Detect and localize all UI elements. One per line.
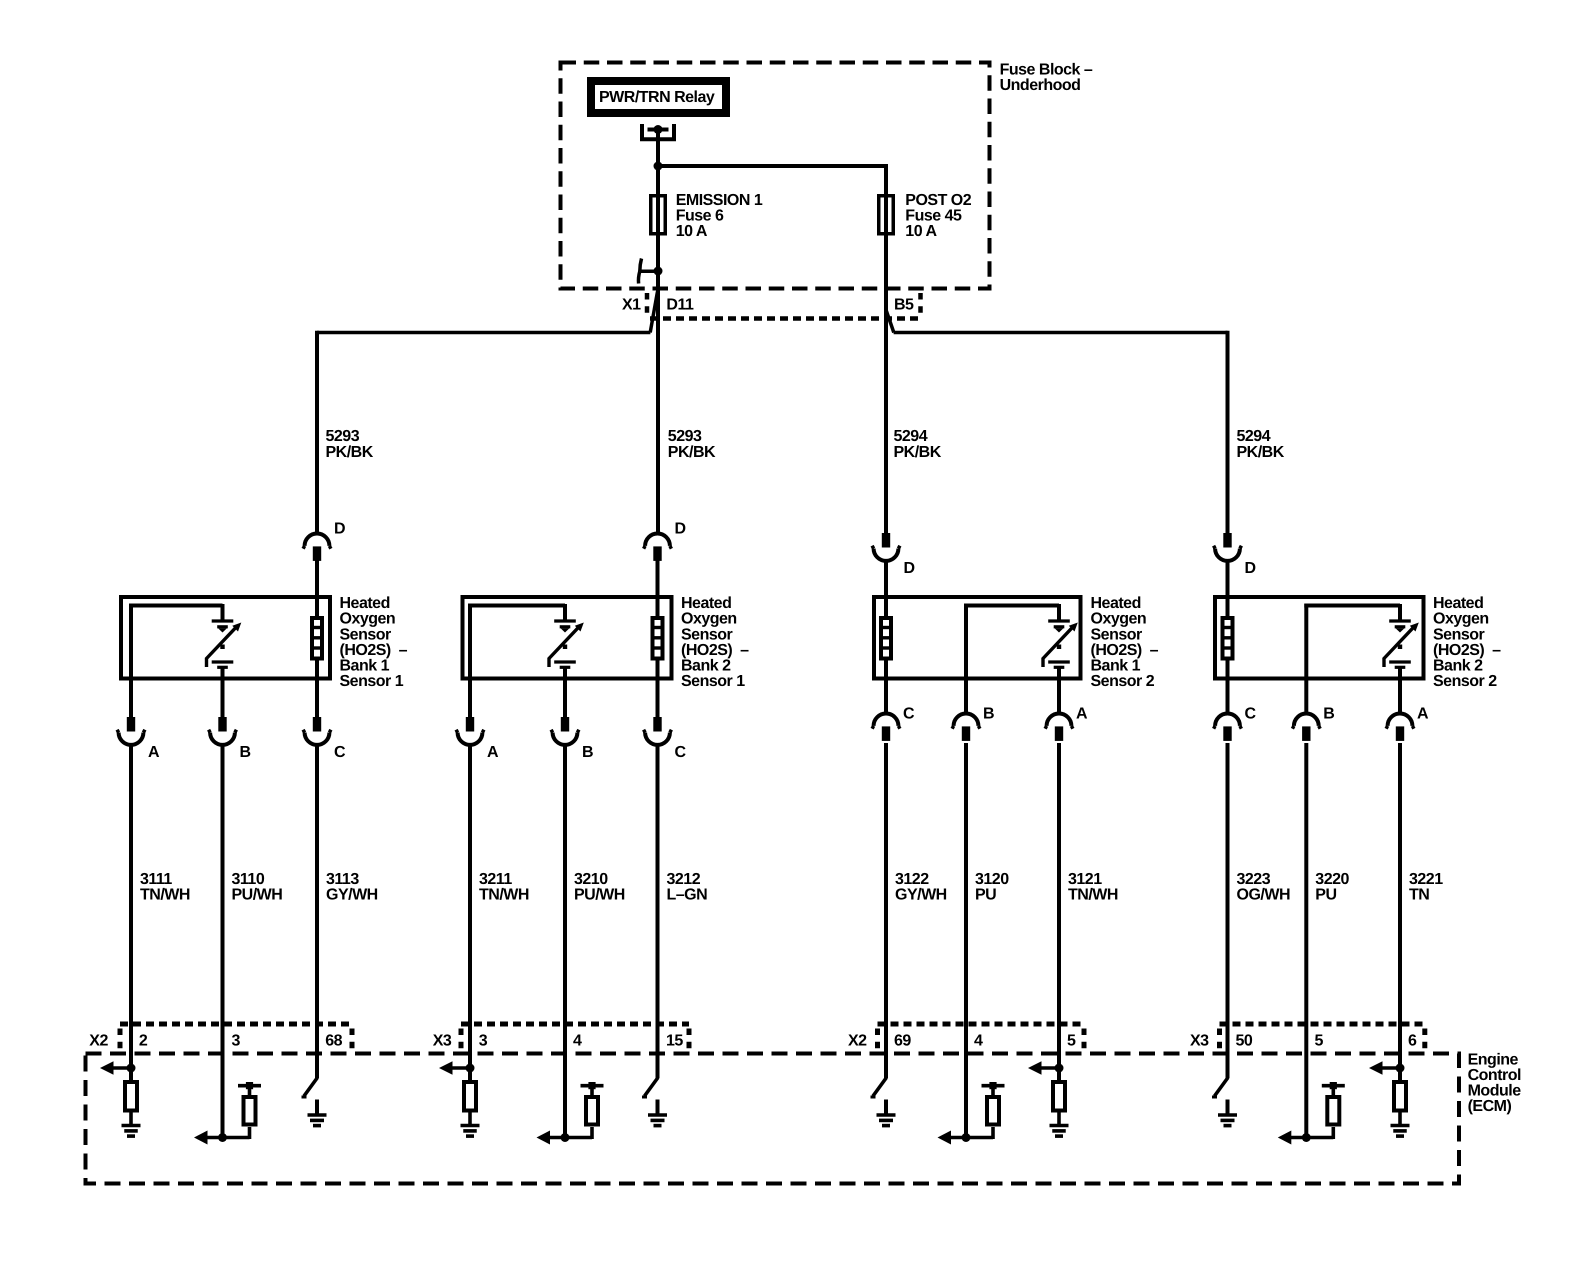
svg-text:3220: 3220 [1315,871,1349,888]
connector pin A (3111) [117,717,145,745]
svg-text:B: B [983,706,994,723]
ground stem pin 15 [656,1100,660,1116]
svg-text:POST O2: POST O2 [905,192,971,209]
wire 3110 PU/WH run [221,745,225,1140]
svg-text:Sensor 2: Sensor 2 [1091,673,1155,690]
svg-text:Oxygen: Oxygen [681,611,737,628]
connector pin B (3210) [551,717,579,745]
svg-text:50: 50 [1236,1033,1253,1050]
svg-text:X3: X3 [1190,1033,1209,1050]
wire 3113 GY/WH run [315,745,319,1079]
wire 3220 PU run [1304,743,1308,1140]
svg-text:3121: 3121 [1068,871,1102,888]
ground (internal) pin 50 [1218,1115,1237,1126]
svg-text:X2: X2 [848,1033,867,1050]
junction node pin 6 [1396,1064,1405,1073]
svg-text:10 A: 10 A [676,223,708,240]
svg-text:B: B [582,744,593,761]
svg-text:Sensor 2: Sensor 2 [1433,673,1497,690]
connector pin B (3220) [1292,714,1320,741]
wire box to pin C (3122) [884,678,888,715]
svg-text:D: D [675,521,686,538]
svg-text:OG/WH: OG/WH [1237,887,1291,904]
svg-text:(HO2S) –: (HO2S) – [681,642,749,659]
svg-text:3111: 3111 [140,871,172,888]
svg-text:A: A [1076,706,1088,723]
connector pin C (3212) [644,717,672,745]
svg-text:PU/WH: PU/WH [574,887,625,904]
svg-text:PK/BK: PK/BK [1237,444,1285,461]
HO2S Bank 2 Sensor 2 (box) [1215,597,1424,679]
svg-text:D: D [904,560,915,577]
svg-text:10 A: 10 A [905,223,937,240]
wire resistor to ground pin 5 [1057,1111,1061,1126]
connector pin D (branch 2) [644,534,672,561]
svg-text:3211: 3211 [479,871,512,888]
HO2S B2S2 internal wire B elbow [1304,604,1400,680]
ECM connector strip X2 (2/3/68) [89,1024,352,1050]
switch contact (internal) pin 69 [871,1078,887,1098]
svg-text:(HO2S) –: (HO2S) – [1091,642,1159,659]
HO2S B2S2 heater element [1223,616,1233,682]
svg-text:C: C [1245,706,1257,723]
junction node pin 3 [466,1064,475,1073]
svg-text:3110: 3110 [232,871,265,888]
wire box to pin A (3111) [129,678,133,719]
junction node (relay output) [654,162,663,171]
svg-text:Sensor: Sensor [681,626,733,643]
wire 3221 TN run [1398,743,1402,1082]
HO2S B1S2 sensing cell [1043,604,1078,680]
svg-text:6: 6 [1408,1033,1417,1050]
svg-text:3210: 3210 [574,871,608,888]
svg-text:3: 3 [232,1033,241,1050]
svg-text:Heated: Heated [681,595,731,612]
svg-text:PK/BK: PK/BK [668,444,716,461]
svg-text:3221: 3221 [1409,871,1443,888]
svg-text:4: 4 [974,1033,983,1050]
svg-text:Bank 2: Bank 2 [1433,658,1483,675]
voltage supply bar pin 4 [581,1082,604,1089]
svg-text:Heated: Heated [340,595,390,612]
junction node pin 4 [962,1133,971,1142]
wire 3120 PU run [964,743,968,1140]
ground (internal) pin 2 [122,1126,141,1137]
connector pin C (3113) [303,717,331,745]
wire D to HO2S B1S1 heater [315,561,319,619]
svg-text:C: C [334,744,346,761]
svg-text:69: 69 [894,1033,911,1050]
HO2S B2S1 sensing cell [549,604,584,680]
HO2S B2S1 internal wire A elbow [468,604,565,680]
switch contact (internal) pin 68 [302,1078,318,1098]
wire 3210 PU/WH run [563,745,567,1140]
svg-text:Sensor: Sensor [1433,626,1485,643]
svg-text:Sensor: Sensor [340,626,392,643]
svg-text:TN/WH: TN/WH [140,887,190,904]
svg-text:5293: 5293 [326,428,360,445]
fuse block - underhood (dashed box) [561,63,990,289]
ECM connector strip X3 (3/4/15) [433,1024,689,1050]
switch contact (internal) pin 50 [1212,1078,1228,1098]
svg-text:Fuse Block –: Fuse Block – [1000,62,1093,79]
svg-text:GY/WH: GY/WH [895,887,947,904]
connector pin B (3120) [952,714,980,741]
wire D to HO2S B2S1 heater [656,561,660,619]
ground (internal) pin 15 [648,1115,667,1126]
svg-text:(HO2S) –: (HO2S) – [340,642,408,659]
svg-text:4: 4 [573,1033,582,1050]
svg-text:3223: 3223 [1237,871,1271,888]
wire D to HO2S B1S2 heater [884,560,888,618]
resistor (pull-down) pin 3 [464,1082,476,1111]
svg-text:D: D [334,521,345,538]
HO2S B1S2 internal wire B elbow [964,604,1059,680]
relay contact symbol [642,124,674,139]
wire box to pin B (3110) [221,678,225,719]
svg-text:Module: Module [1468,1083,1522,1100]
svg-text:Heated: Heated [1433,595,1483,612]
HO2S B1S1 internal wire A elbow [129,604,223,680]
svg-text:3: 3 [479,1033,488,1050]
HO2S B1S2 heater element [881,616,891,682]
svg-text:PK/BK: PK/BK [894,444,942,461]
svg-text:68: 68 [325,1033,342,1050]
wire junction to POST O2 fuse [658,166,886,533]
ground (internal) pin 68 [308,1115,327,1126]
voltage supply bar pin 3 [238,1082,261,1089]
junction node pin 5 [1055,1064,1064,1073]
svg-text:(HO2S) –: (HO2S) – [1433,642,1501,659]
wire 3121 TN/WH run [1057,743,1061,1082]
ground stem pin 69 [884,1100,888,1116]
voltage supply bar pin 5 [1322,1082,1345,1089]
svg-text:3212: 3212 [667,871,701,888]
svg-text:GY/WH: GY/WH [326,887,378,904]
svg-text:Oxygen: Oxygen [340,611,396,628]
arrow (internal signal) pin 6 [1369,1061,1400,1074]
svg-text:D: D [1245,560,1256,577]
svg-text:PWR/TRN Relay: PWR/TRN Relay [599,89,715,106]
arrow (internal signal) pin 3 [194,1131,250,1145]
ECM connector strip X3 (50/5/6) [1190,1024,1425,1050]
svg-text:C: C [675,744,687,761]
arrow (internal signal) pin 4 [537,1131,593,1145]
wire 3211 TN/WH run [468,745,472,1083]
svg-text:3113: 3113 [326,871,359,888]
svg-text:3120: 3120 [975,871,1009,888]
wire box to pin C (3212) [656,678,660,719]
connector pin C (3122) [872,714,900,741]
ECM dashed box [86,1054,1460,1184]
svg-text:L–GN: L–GN [667,887,708,904]
HO2S B1S1 heater element [312,616,322,682]
svg-text:X1: X1 [622,296,641,313]
svg-text:Bank 1: Bank 1 [1091,658,1141,675]
HO2S B2S1 heater element [653,616,663,682]
wire relay to D11 (vertical) [656,131,660,535]
svg-text:PU/WH: PU/WH [232,887,283,904]
svg-text:Bank 1: Bank 1 [340,658,390,675]
svg-text:Underhood: Underhood [1000,77,1081,94]
wire box to pin B (3120) [964,678,968,715]
wire resistor to ground pin 3 [468,1111,472,1126]
svg-text:Oxygen: Oxygen [1433,611,1489,628]
svg-text:Heated: Heated [1091,595,1141,612]
arrow (internal signal) pin 2 [100,1061,131,1074]
svg-text:PU: PU [975,887,996,904]
resistor (pull-up) pin 3 [244,1087,256,1139]
fuse EMISSION 1 Fuse 6 10 A [651,192,763,240]
arrow (internal signal) pin 4 [938,1131,994,1145]
connector pin D (branch 1) [303,534,331,561]
svg-text:5294: 5294 [1237,428,1271,445]
HO2S Bank 1 Sensor 2 (box) [874,597,1081,679]
junction node pin 4 [561,1133,570,1142]
svg-text:5: 5 [1067,1033,1076,1050]
svg-text:C: C [903,706,915,723]
svg-text:5294: 5294 [894,428,928,445]
switch contact (internal) pin 15 [642,1078,658,1098]
wire 3223 OG/WH run [1226,743,1230,1078]
svg-text:Bank 2: Bank 2 [681,658,731,675]
fuse POST O2 Fuse 45 10 A [879,192,972,240]
svg-text:B5: B5 [894,296,914,313]
resistor (pull-up) pin 4 [987,1087,999,1139]
connector pin B (3110) [209,717,237,745]
ECM connector strip X2 (69/4/5) [848,1024,1084,1050]
svg-text:Fuse 6: Fuse 6 [676,208,724,225]
svg-text:X3: X3 [433,1033,452,1050]
svg-text:B: B [1323,706,1334,723]
wire resistor to ground pin 2 [129,1111,133,1126]
connector pin D (branch 4) [1214,533,1242,561]
arrow (internal signal) pin 3 [439,1061,470,1074]
svg-text:Sensor 1: Sensor 1 [681,673,745,690]
svg-text:X2: X2 [89,1033,108,1050]
svg-text:Sensor: Sensor [1091,626,1143,643]
relay PWR/TRN Relay (box) [591,81,726,113]
voltage supply bar pin 4 [982,1082,1005,1089]
HO2S Bank 1 Sensor 1 (box) [121,597,330,679]
ground (internal) pin 6 [1391,1126,1410,1137]
svg-text:2: 2 [139,1033,148,1050]
wire resistor to ground pin 6 [1398,1111,1402,1126]
svg-text:TN/WH: TN/WH [1068,887,1118,904]
wire D11 branch left (to HO2S B1S1) [317,292,658,535]
wire D to HO2S B2S2 heater [1226,560,1230,618]
arrow (internal signal) pin 5 [1278,1131,1334,1145]
svg-text:A: A [148,744,160,761]
wire box to pin C (3223) [1226,678,1230,715]
svg-text:TN: TN [1409,887,1429,904]
junction node pin 3 [218,1133,227,1142]
resistor (pull-down) pin 2 [125,1082,137,1111]
ground (internal) pin 69 [877,1115,896,1126]
resistor (pull-up) pin 5 [1327,1087,1339,1139]
junction node pin 2 [127,1064,136,1073]
wire box to pin A (3121) [1057,678,1061,715]
wire box to pin C (3113) [315,678,319,719]
splice curl symbol at D11 [638,259,656,284]
wire box to pin A (3211) [468,678,472,719]
svg-text:D11: D11 [666,296,694,313]
connector pin D (branch 3) [872,533,900,561]
connector strip X1 D11 / B5 [622,293,922,319]
resistor (pull-down) pin 5 [1053,1082,1065,1111]
svg-text:Sensor 1: Sensor 1 [340,673,404,690]
wire 3111 TN/WH run [129,745,133,1083]
svg-text:Fuse 45: Fuse 45 [905,208,962,225]
ground stem pin 50 [1226,1100,1230,1116]
svg-text:EMISSION 1: EMISSION 1 [676,192,763,209]
HO2S Bank 2 Sensor 1 (box) [463,597,672,679]
svg-text:(ECM): (ECM) [1468,1098,1512,1115]
svg-text:B: B [240,744,251,761]
wire box to pin B (3210) [563,678,567,719]
svg-text:Control: Control [1468,1067,1521,1084]
svg-text:5293: 5293 [668,428,702,445]
svg-text:15: 15 [666,1033,683,1050]
svg-text:A: A [1417,706,1429,723]
wire box to pin A (3221) [1398,678,1402,715]
svg-text:5: 5 [1315,1033,1324,1050]
svg-text:TN/WH: TN/WH [479,887,529,904]
ground stem pin 68 [315,1100,319,1116]
junction node pin 5 [1302,1133,1311,1142]
svg-text:PU: PU [1315,887,1336,904]
connector pin A (3121) [1045,714,1073,741]
resistor (pull-up) pin 4 [586,1087,598,1139]
svg-text:Engine: Engine [1468,1051,1519,1068]
svg-text:Oxygen: Oxygen [1091,611,1147,628]
connector pin A (3221) [1386,714,1414,741]
connector pin A (3211) [456,717,484,745]
wire 3212 L–GN run [656,745,660,1079]
wire B5 branch right (to HO2S B2S2) [886,311,1227,533]
wire box to pin B (3220) [1304,678,1308,715]
svg-text:PK/BK: PK/BK [326,444,374,461]
svg-text:3122: 3122 [895,871,929,888]
HO2S B2S2 sensing cell [1384,604,1419,680]
ground (internal) pin 3 [461,1126,480,1137]
connector pin C (3223) [1214,714,1242,741]
ground (internal) pin 5 [1050,1126,1069,1137]
HO2S B1S1 sensing cell [207,604,242,680]
arrow (internal signal) pin 5 [1028,1061,1059,1074]
resistor (pull-down) pin 6 [1394,1082,1406,1111]
wire 3122 GY/WH run [884,743,888,1078]
svg-text:A: A [487,744,499,761]
junction node at D11 splice [654,267,663,276]
